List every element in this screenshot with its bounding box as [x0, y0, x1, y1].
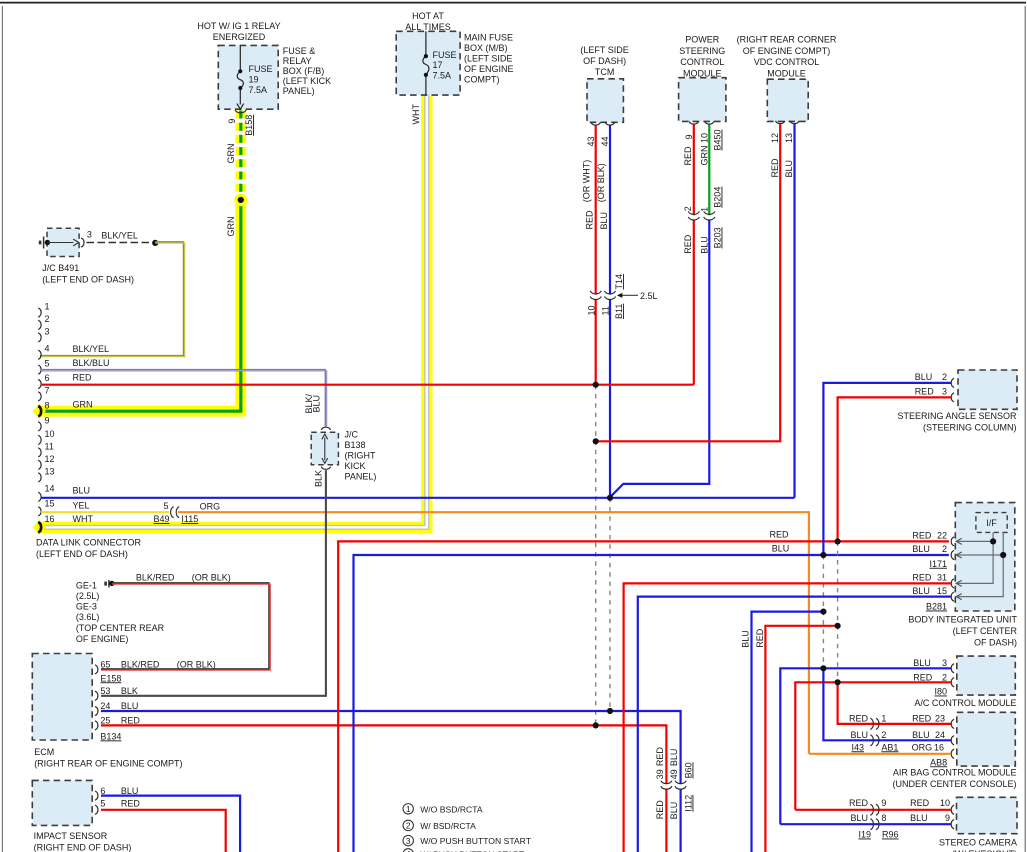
svg-text:24: 24	[100, 701, 110, 711]
svg-text:9: 9	[945, 813, 950, 823]
wire WHT highlighted yellow from fuse 17 to DLC pin 16	[38, 95, 427, 527]
wire BLK/YEL dashed from J/C B491	[87, 242, 153, 244]
annotation 2.5L arrow	[617, 291, 658, 301]
dashed variant wire x=609.9	[609, 498, 611, 711]
svg-text:BLU: BLU	[700, 236, 710, 254]
wire RED to stereo camera pin 10 via I19	[795, 809, 951, 811]
wire BLK/BLU DLC pin 5 to J/C B138	[41, 370, 327, 427]
svg-text:9: 9	[45, 415, 50, 425]
svg-text:WHT: WHT	[73, 514, 94, 524]
svg-text:TCM: TCM	[595, 67, 615, 77]
wire BLU TCM 44 down to junction	[609, 126, 611, 498]
svg-text:14: 14	[45, 483, 55, 493]
svg-text:16: 16	[934, 742, 944, 752]
wire RED to air bag pin 23 via I43	[838, 682, 951, 724]
svg-text:BLU: BLU	[913, 658, 931, 668]
svg-text:3: 3	[406, 836, 411, 846]
svg-text:2: 2	[45, 314, 50, 324]
svg-text:(LEFT SIDE: (LEFT SIDE	[580, 45, 628, 55]
wire BLK/YEL from junction to DLC pin 4	[40, 242, 185, 357]
wire BLU BIU pin 15	[638, 597, 951, 852]
junction dot VDC red / dashed	[593, 438, 599, 444]
svg-text:RED: RED	[912, 573, 932, 583]
svg-text:(LEFT CENTER: (LEFT CENTER	[953, 626, 1018, 636]
svg-text:PANEL): PANEL)	[345, 472, 377, 482]
svg-text:RED: RED	[655, 800, 665, 820]
svg-text:3: 3	[45, 326, 50, 336]
svg-text:BOX (M/B): BOX (M/B)	[464, 43, 508, 53]
svg-text:VDC CONTROL: VDC CONTROL	[754, 57, 820, 67]
svg-text:9: 9	[227, 119, 237, 124]
svg-text:(LEFT END OF DASH): (LEFT END OF DASH)	[36, 549, 128, 559]
wire YEL DLC pin 15 to connector B49	[41, 511, 169, 513]
junction dot BLK/YEL	[152, 240, 158, 246]
inline connector B60/I112	[655, 747, 694, 820]
svg-text:2.5L: 2.5L	[640, 291, 658, 301]
wire BLK from J/C B138 to ECM pin 53	[101, 470, 326, 696]
svg-text:10: 10	[940, 798, 950, 808]
svg-text:B203: B203	[713, 227, 723, 248]
inline connector B204/B203	[683, 187, 723, 254]
svg-text:GRN: GRN	[73, 400, 93, 410]
svg-text:RED: RED	[770, 158, 780, 178]
svg-text:22: 22	[937, 531, 947, 541]
wire BLU DLC pin 14	[41, 497, 795, 499]
svg-text:HOT W/ IG 1 RELAY: HOT W/ IG 1 RELAY	[197, 21, 280, 31]
svg-text:BLU: BLU	[121, 786, 139, 796]
wire RED PS pin 9 down	[598, 125, 694, 385]
svg-text:OF ENGINE): OF ENGINE)	[76, 634, 129, 644]
svg-text:BLK: BLK	[314, 470, 324, 487]
svg-text:B138: B138	[345, 440, 366, 450]
svg-text:ORG: ORG	[200, 502, 221, 512]
label BLU (OR BLK) TCM pin 44	[596, 163, 609, 229]
junction dot steering blue / BIU blue	[820, 552, 826, 558]
wire GRN PS pin 10 down	[708, 125, 710, 216]
svg-text:OF DASH): OF DASH)	[583, 56, 626, 66]
svg-text:(RIGHT REAR OF ENGINE COMPT): (RIGHT REAR OF ENGINE COMPT)	[34, 759, 182, 769]
svg-text:I112: I112	[684, 795, 694, 812]
svg-text:STEERING ANGLE SENSOR: STEERING ANGLE SENSOR	[897, 411, 1017, 421]
svg-text:(OR BLK): (OR BLK)	[596, 163, 606, 202]
svg-text:10: 10	[586, 305, 596, 315]
wire BLU to air bag pin 24 via I43	[823, 668, 951, 740]
svg-text:OF ENGINE: OF ENGINE	[464, 64, 514, 74]
svg-text:MAIN FUSE: MAIN FUSE	[464, 32, 513, 42]
svg-text:(OR WHT): (OR WHT)	[582, 160, 592, 203]
svg-text:2: 2	[942, 544, 947, 554]
inline connector I43/AB1	[870, 718, 879, 746]
dashed variant wire x=837.6	[837, 541, 839, 682]
svg-text:HOT AT: HOT AT	[412, 11, 444, 21]
svg-text:RED: RED	[849, 798, 869, 808]
svg-text:J/C B491: J/C B491	[42, 263, 79, 273]
svg-text:AIR BAG CONTROL MODULE: AIR BAG CONTROL MODULE	[893, 768, 1017, 778]
svg-text:15: 15	[45, 498, 55, 508]
svg-text:BOX (F/B): BOX (F/B)	[283, 66, 325, 76]
junction dot TCM blue / DLC blue	[607, 495, 613, 501]
svg-text:ECM: ECM	[34, 747, 54, 757]
svg-text:1: 1	[881, 713, 886, 723]
wire RED branch y=625.8	[765, 626, 837, 852]
junction dot TCM red / DLC red	[593, 382, 599, 388]
label BLK/RED (OR BLK) ground wire	[136, 572, 231, 582]
svg-text:49: 49	[669, 769, 679, 779]
DATA LINK CONNECTOR pins	[33, 301, 142, 559]
svg-text:BODY INTEGRATED UNIT: BODY INTEGRATED UNIT	[908, 615, 1017, 625]
svg-text:WHT: WHT	[411, 104, 421, 125]
junction dot ECM blue / dashed	[607, 708, 613, 714]
svg-text:RED: RED	[913, 672, 933, 682]
svg-text:2: 2	[942, 672, 947, 682]
svg-text:B281: B281	[926, 602, 947, 612]
wire BLU A/C pin 3	[780, 668, 951, 824]
wire ORG to air bag pin 16	[809, 753, 951, 755]
dashed variant wire x=823.4	[822, 555, 824, 668]
page border right	[1024, 6, 1026, 852]
main fuse box M/B	[396, 11, 513, 95]
TCM module	[580, 45, 628, 147]
IMPACT SENSOR module	[32, 780, 140, 852]
connector arc below fuse 19 (B158)	[227, 110, 254, 136]
svg-text:BLU: BLU	[599, 212, 609, 230]
BODY INTEGRATED UNIT	[908, 503, 1017, 648]
note 1 W/O BSD/RCTA	[403, 804, 483, 815]
svg-text:1: 1	[700, 207, 710, 212]
J/C B138	[304, 393, 376, 487]
svg-text:RED: RED	[755, 628, 765, 648]
wire RED long loop to BIU pin 22	[338, 541, 949, 852]
svg-text:7.5A: 7.5A	[249, 85, 268, 95]
svg-text:RELAY: RELAY	[283, 56, 312, 66]
svg-text:POWER: POWER	[685, 35, 720, 45]
svg-text:BLU: BLU	[912, 544, 930, 554]
junction dot A/C blue	[820, 665, 826, 671]
svg-text:DATA LINK CONNECTOR: DATA LINK CONNECTOR	[36, 538, 142, 548]
svg-text:44: 44	[600, 136, 610, 146]
wire BLK/RED from ground to ECM pin 65	[101, 583, 270, 670]
wire RED DLC pin 6 to junction	[41, 384, 596, 386]
wire RED TCM 43 down to junction	[595, 126, 597, 385]
svg-text:FUSE: FUSE	[249, 64, 273, 74]
svg-text:25: 25	[100, 716, 110, 726]
svg-text:BLU: BLU	[772, 543, 790, 553]
svg-text:12: 12	[770, 133, 780, 143]
svg-text:13: 13	[784, 133, 794, 143]
svg-text:1: 1	[406, 804, 411, 814]
wire RED BIU pin 31	[624, 583, 951, 852]
svg-text:BLU: BLU	[784, 160, 794, 178]
svg-text:BLU: BLU	[669, 802, 679, 820]
svg-text:24: 24	[935, 730, 945, 740]
svg-text:9: 9	[881, 798, 886, 808]
svg-text:3: 3	[942, 387, 947, 397]
svg-text:AB1: AB1	[881, 742, 898, 752]
svg-text:R96: R96	[882, 830, 899, 840]
svg-text:9: 9	[684, 134, 694, 139]
svg-text:RED: RED	[849, 713, 869, 723]
svg-text:COMPT): COMPT)	[464, 74, 500, 84]
junction dot blue branch y=611.6	[820, 609, 826, 615]
svg-text:BLU: BLU	[121, 701, 139, 711]
svg-text:7.5A: 7.5A	[433, 71, 452, 81]
svg-text:BLU: BLU	[73, 486, 91, 496]
svg-text:GRN: GRN	[226, 217, 236, 237]
svg-text:(OR BLK): (OR BLK)	[177, 660, 216, 670]
svg-text:4: 4	[45, 343, 50, 353]
POWER STEERING CONTROL MODULE	[679, 35, 726, 166]
note 4 W/ PUSH BUTTON START (clipped)	[403, 849, 525, 852]
wire RED impact sensor pin 5	[101, 810, 226, 852]
svg-text:2: 2	[881, 730, 886, 740]
wire BLU to stereo camera pin 9 via I19	[780, 823, 951, 825]
svg-text:23: 23	[935, 713, 945, 723]
svg-text:B49: B49	[154, 514, 170, 524]
svg-text:RED: RED	[73, 373, 93, 383]
fuse 19 7.5A	[237, 45, 273, 109]
svg-text:BLK/YEL: BLK/YEL	[73, 344, 110, 354]
svg-text:RED: RED	[121, 799, 141, 809]
svg-text:5: 5	[100, 799, 105, 809]
svg-text:IMPACT SENSOR: IMPACT SENSOR	[34, 831, 108, 841]
svg-text:12: 12	[45, 454, 55, 464]
svg-text:(LEFT SIDE: (LEFT SIDE	[464, 53, 512, 63]
svg-text:B158: B158	[244, 115, 254, 136]
svg-text:RED: RED	[915, 387, 935, 397]
J/C B491	[39, 228, 138, 284]
svg-text:BLU: BLU	[850, 730, 868, 740]
svg-text:3: 3	[942, 658, 947, 668]
svg-text:BLU: BLU	[912, 730, 930, 740]
svg-text:2: 2	[942, 372, 947, 382]
wire BLU impact sensor pin 6	[101, 796, 240, 852]
svg-text:W/O BSD/RCTA: W/O BSD/RCTA	[420, 804, 483, 814]
svg-text:RED: RED	[655, 747, 665, 767]
note 3 W/O PUSH BUTTON START	[403, 835, 532, 846]
svg-text:(LEFT KICK: (LEFT KICK	[283, 76, 331, 86]
svg-text:B134: B134	[100, 731, 121, 741]
wire RED ECM pin 25 to connector B60	[101, 725, 666, 852]
svg-text:ALL TIMES: ALL TIMES	[405, 22, 451, 32]
svg-text:19: 19	[249, 74, 259, 84]
svg-text:5: 5	[45, 358, 50, 368]
svg-text:39: 39	[655, 769, 665, 779]
A/C CONTROL MODULE	[913, 656, 1016, 708]
svg-text:65: 65	[100, 660, 110, 670]
svg-text:2: 2	[683, 206, 693, 211]
svg-text:GE-1: GE-1	[76, 581, 97, 591]
svg-text:43: 43	[586, 136, 596, 146]
svg-text:STEERING: STEERING	[679, 46, 725, 56]
wire BLU long loop to BIU pin 2	[354, 555, 949, 852]
svg-text:E158: E158	[100, 673, 121, 683]
svg-text:MODULE: MODULE	[683, 68, 722, 78]
svg-text:BLU: BLU	[850, 813, 868, 823]
svg-text:(LEFT END OF DASH): (LEFT END OF DASH)	[42, 275, 134, 285]
svg-text:BLU: BLU	[741, 630, 751, 648]
svg-text:RED: RED	[584, 210, 594, 230]
svg-text:1: 1	[45, 301, 50, 311]
svg-text:16: 16	[45, 514, 55, 524]
svg-text:(2.5L): (2.5L)	[76, 591, 100, 601]
svg-text:15: 15	[937, 586, 947, 596]
svg-text:10: 10	[699, 133, 709, 143]
svg-text:W/O PUSH BUTTON START: W/O PUSH BUTTON START	[420, 836, 532, 846]
svg-text:(3.6L): (3.6L)	[76, 612, 100, 622]
svg-text:(UNDER CENTER CONSOLE): (UNDER CENTER CONSOLE)	[892, 779, 1016, 789]
svg-text:PANEL): PANEL)	[283, 86, 315, 96]
wire BLU steering sensor pin 2	[823, 383, 951, 555]
svg-text:A/C CONTROL MODULE: A/C CONTROL MODULE	[914, 698, 1016, 708]
svg-text:BLU: BLU	[669, 749, 679, 767]
svg-text:YEL: YEL	[73, 501, 90, 511]
VDC CONTROL MODULE	[737, 35, 837, 178]
svg-text:ORG: ORG	[912, 742, 933, 752]
junction dot steering red / BIU red	[835, 538, 841, 544]
svg-text:GRN: GRN	[700, 146, 710, 166]
svg-text:53: 53	[100, 686, 110, 696]
junction dot red branch y=625.8	[835, 623, 841, 629]
svg-text:B60: B60	[684, 762, 694, 778]
svg-text:BLK/YEL: BLK/YEL	[101, 231, 138, 241]
dashed variant wire x=595.7 (2.5L)	[595, 385, 597, 726]
svg-text:RED: RED	[121, 716, 141, 726]
svg-text:RED: RED	[912, 713, 932, 723]
svg-text:11: 11	[600, 306, 610, 315]
svg-text:MODULE: MODULE	[767, 68, 806, 78]
svg-text:7: 7	[45, 385, 50, 395]
STEERING ANGLE SENSOR	[897, 370, 1017, 433]
fuse & relay box F/B	[197, 21, 331, 109]
svg-text:I115: I115	[181, 514, 198, 524]
junction dot A/C red	[835, 679, 841, 685]
svg-text:BLK/RED: BLK/RED	[121, 660, 160, 670]
svg-text:8: 8	[45, 400, 50, 410]
svg-text:RED: RED	[770, 530, 790, 540]
svg-text:B450: B450	[713, 129, 723, 150]
svg-text:OF DASH): OF DASH)	[974, 638, 1017, 648]
junction dot ECM red / dashed	[593, 722, 599, 728]
label RED (OR WHT) TCM pin 43	[582, 160, 595, 230]
svg-text:(RIGHT END OF DASH): (RIGHT END OF DASH)	[34, 843, 132, 852]
svg-text:2: 2	[406, 821, 411, 831]
svg-text:OF ENGINE COMPT): OF ENGINE COMPT)	[743, 46, 831, 56]
svg-text:6: 6	[45, 373, 50, 383]
wire ORG from I115 to corner	[178, 512, 809, 754]
svg-text:ENERGIZED: ENERGIZED	[213, 32, 266, 42]
wire RED VDC 12 down to dashed junction	[598, 124, 780, 441]
svg-text:FUSE: FUSE	[433, 50, 457, 60]
svg-text:8: 8	[881, 813, 886, 823]
svg-text:BLK: BLK	[121, 686, 138, 696]
svg-text:BLU: BLU	[915, 372, 933, 382]
svg-text:B11: B11	[614, 304, 624, 319]
wire BLU PS pin 1 below connector to DLC blue	[611, 220, 709, 496]
wire BLU branch y=611.6	[752, 612, 824, 852]
DLC wire labels	[73, 344, 110, 524]
page border top	[0, 2, 1026, 4]
svg-text:BLK/BLU: BLK/BLU	[73, 358, 110, 368]
svg-text:AB8: AB8	[930, 757, 947, 767]
svg-text:13: 13	[45, 466, 55, 476]
svg-text:6: 6	[100, 786, 105, 796]
svg-text:GE-3: GE-3	[76, 602, 97, 612]
svg-text:J/C: J/C	[345, 430, 359, 440]
BIU internal wiring	[956, 532, 1006, 599]
wire RED steering sensor pin 3	[838, 397, 951, 541]
svg-text:BLK/RED: BLK/RED	[136, 572, 175, 582]
note 2 W/ BSD/RCTA	[403, 820, 476, 831]
ECM module	[32, 654, 216, 769]
inline connector I19/R96	[870, 804, 879, 830]
svg-text:17: 17	[433, 60, 443, 70]
svg-text:RED: RED	[683, 146, 693, 166]
svg-text:RED: RED	[912, 531, 932, 541]
wire RED A/C pin 2	[795, 682, 951, 810]
svg-text:B204: B204	[713, 187, 723, 208]
svg-text:3: 3	[87, 230, 92, 240]
svg-text:10: 10	[45, 429, 55, 439]
svg-text:(OR BLK): (OR BLK)	[192, 572, 231, 582]
ground GE-1/GE-3	[76, 580, 165, 644]
page border left	[1, 6, 3, 852]
svg-text:(TOP CENTER REAR: (TOP CENTER REAR	[76, 623, 165, 633]
svg-text:BLU: BLU	[912, 586, 930, 596]
svg-text:5: 5	[163, 501, 168, 511]
svg-text:BLU: BLU	[910, 813, 928, 823]
svg-text:KICK: KICK	[345, 461, 366, 471]
svg-text:FUSE &: FUSE &	[283, 46, 316, 56]
svg-text:CONTROL: CONTROL	[680, 57, 724, 67]
inline connector B49/I115	[154, 501, 199, 524]
wire BLU VDC 13 down joins DLC pin14 blue	[793, 124, 795, 498]
svg-text:T14: T14	[614, 274, 624, 290]
svg-text:W/ BSD/RCTA: W/ BSD/RCTA	[420, 821, 476, 831]
junction splice dot on GRN wire	[234, 194, 247, 207]
svg-text:I/F: I/F	[986, 518, 997, 528]
wire GRN highlighted yellow from fuse 19 to DLC pin 8	[38, 111, 241, 412]
fuse 17 7.5A	[423, 31, 457, 95]
svg-text:(RIGHT REAR CORNER: (RIGHT REAR CORNER	[737, 35, 837, 45]
svg-text:I80: I80	[934, 687, 947, 697]
svg-text:(RIGHT: (RIGHT	[345, 451, 376, 461]
svg-text:(STEERING COLUMN): (STEERING COLUMN)	[923, 423, 1017, 433]
svg-text:BLU: BLU	[311, 395, 321, 413]
AIR BAG CONTROL MODULE	[849, 712, 1017, 789]
svg-text:11: 11	[45, 441, 54, 451]
svg-text:RED: RED	[683, 234, 693, 254]
STEREO CAMERA	[849, 797, 1017, 852]
svg-text:I19: I19	[859, 830, 872, 840]
svg-text:STEREO CAMERA: STEREO CAMERA	[939, 838, 1017, 848]
svg-text:I43: I43	[851, 742, 864, 752]
wire BLU ECM pin 24 to connector B60	[101, 711, 681, 852]
inline connector T14/B11	[586, 274, 624, 319]
svg-text:I171: I171	[929, 559, 947, 569]
svg-text:GRN: GRN	[226, 144, 236, 164]
svg-text:31: 31	[937, 573, 947, 583]
svg-text:RED: RED	[910, 798, 930, 808]
